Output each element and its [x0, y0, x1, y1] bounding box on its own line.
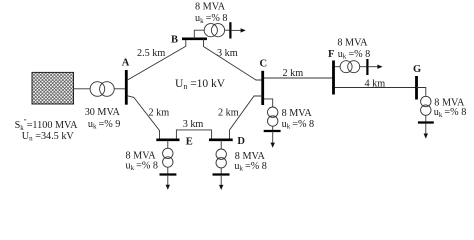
svg-text:3 km: 3 km: [217, 48, 238, 59]
load arrow at B: [230, 29, 241, 31]
svg-text:E: E: [186, 136, 193, 147]
wire bus D to transformer TD: [220, 140, 222, 149]
bus C: [261, 71, 264, 105]
wire TF to terminal bar: [360, 66, 368, 68]
bus G: [415, 76, 418, 100]
svg-text:2.5 km: 2.5 km: [137, 48, 165, 59]
wire TD to terminal bar: [220, 168, 222, 174]
transformer TC (8 MVA at C): [268, 107, 278, 117]
svg-text:uk =% 9: uk =% 9: [88, 119, 121, 131]
load arrow at E: [167, 175, 169, 187]
transformer TG (8 MVA at G): [421, 96, 431, 106]
svg-text:30 MVA: 30 MVA: [85, 107, 121, 118]
load arrow at C: [272, 131, 274, 144]
bus D: [209, 139, 233, 142]
wire line A-E (2 km): [128, 96, 160, 139]
wire line B-C (3 km): [204, 39, 263, 80]
svg-text:uk =% 8: uk =% 8: [126, 160, 159, 172]
wire bus F to transformer TF: [335, 66, 341, 68]
wire line F-G (4 km): [335, 87, 417, 89]
wire line E-D (3 km): [176, 130, 211, 139]
terminal bar at B load: [229, 22, 231, 38]
external grid source (hatched box): [32, 72, 74, 104]
svg-text:2 km: 2 km: [149, 107, 170, 118]
svg-text:uk =% 8: uk =% 8: [434, 107, 467, 119]
svg-text:Un =10 kV: Un =10 kV: [175, 78, 226, 91]
wire TG to terminal bar: [425, 115, 427, 122]
svg-text:uk =% 8: uk =% 8: [338, 49, 371, 61]
svg-text:2 km: 2 km: [218, 108, 239, 119]
svg-text:uk =% 8: uk =% 8: [234, 161, 267, 173]
wire bus C to transformer TC: [264, 99, 273, 107]
wire T1 to bus A: [114, 88, 126, 90]
wire TB to terminal bar: [225, 29, 231, 31]
wire TC to terminal bar: [272, 126, 274, 131]
terminal bar at E load: [160, 173, 177, 175]
svg-text:G: G: [413, 64, 421, 75]
terminal bar at F load: [366, 59, 368, 75]
transformer TB (8 MVA at B): [204, 24, 217, 37]
bus A: [125, 70, 128, 105]
svg-text:F: F: [328, 49, 334, 60]
wire bus G to transformer TG: [417, 88, 426, 97]
wire line A-B (2.5 km): [128, 40, 186, 80]
transformer TE (8 MVA at E): [163, 148, 173, 158]
svg-text:A: A: [122, 58, 130, 69]
wire line C-D (2 km): [230, 96, 263, 139]
svg-text:uk =% 8: uk =% 8: [195, 13, 228, 25]
wire TE to terminal bar: [167, 167, 169, 174]
load arrow at G: [425, 123, 427, 135]
load arrow at F: [367, 66, 378, 68]
wire bus E to transformer TE: [167, 140, 169, 148]
svg-text:C: C: [260, 59, 268, 70]
svg-text:8 MVA: 8 MVA: [337, 37, 368, 48]
svg-text:D: D: [237, 136, 245, 147]
wire bus B to transformer TB: [194, 30, 204, 39]
transformer TF (8 MVA at F): [340, 61, 352, 73]
svg-text:uk =% 8: uk =% 8: [282, 119, 315, 131]
terminal bar at D load: [213, 173, 230, 175]
terminal bar at C load: [264, 130, 281, 132]
bus E: [156, 139, 179, 142]
wire source to transformer T1: [74, 88, 91, 90]
bus B: [182, 37, 207, 40]
svg-text:2 km: 2 km: [283, 68, 304, 79]
transformer TD (8 MVA at D): [216, 149, 226, 159]
svg-text:4 km: 4 km: [365, 79, 386, 90]
svg-text:B: B: [171, 35, 178, 46]
terminal bar at G load: [418, 121, 434, 123]
wire line C-F (2 km): [264, 77, 333, 79]
svg-text:8 MVA: 8 MVA: [195, 2, 226, 13]
svg-text:8 MVA: 8 MVA: [282, 108, 313, 119]
bus F: [332, 61, 335, 95]
load arrow at D: [220, 175, 222, 187]
transformer T1 (30 MVA): [90, 82, 105, 97]
svg-text:3 km: 3 km: [183, 119, 204, 130]
